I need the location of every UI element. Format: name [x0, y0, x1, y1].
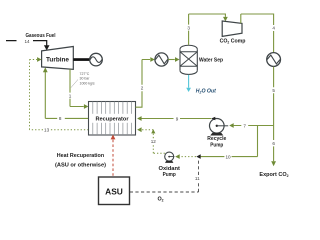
wire HX1 to water sep: [168, 59, 175, 61]
wire stream 10 branch: [201, 126, 258, 157]
compressor CO2 Comp: [222, 21, 242, 36]
pump discharge arrow: [211, 117, 215, 121]
wire fuel line 14: [6, 41, 47, 46]
oxidant pump: [165, 152, 175, 163]
svg-text:13: 13: [44, 128, 50, 133]
svg-text:6: 6: [272, 141, 275, 146]
svg-text:H2O Out: H2O Out: [196, 88, 216, 94]
svg-text:(ASU or otherwise): (ASU or otherwise): [55, 163, 106, 169]
wire stream 5-6 down right side: [273, 67, 275, 162]
annotation leader: [71, 80, 78, 88]
arrow into recycle pump: [229, 123, 234, 128]
shaft turbine-generator: [73, 58, 90, 61]
arrow into compressor: [223, 17, 228, 22]
svg-text:2: 2: [141, 86, 144, 91]
arrow H2O out: [186, 88, 191, 92]
recuperator: [89, 102, 136, 136]
svg-text:7: 7: [243, 123, 246, 128]
wire stream 12 oxidant pump to recuperator (dotted): [137, 130, 165, 154]
wire stream 1 turbine exhaust: [70, 69, 84, 106]
arrow into recuperator left top: [84, 104, 89, 109]
turbine T: [42, 47, 74, 70]
svg-text:1: 1: [69, 93, 72, 98]
wire stream 2 recuperator to cooler: [136, 60, 151, 108]
generator G: [90, 53, 103, 66]
arrow into turbine bottom: [43, 67, 48, 72]
svg-text:3: 3: [187, 25, 190, 30]
arrow red into recuperator bottom: [111, 135, 116, 140]
arrow at O2 junction: [196, 154, 200, 159]
svg-text:727°C: 727°C: [80, 72, 90, 76]
svg-text:Export CO2: Export CO2: [259, 172, 288, 178]
fuel arrow into turbine: [44, 45, 50, 50]
arrow into recuperator right: [137, 116, 142, 121]
svg-text:30 bar: 30 bar: [80, 77, 91, 81]
svg-text:Gaseous Fuel: Gaseous Fuel: [26, 33, 56, 39]
arrow up at corner: [151, 129, 155, 133]
wire stream 8 recuperator to turbine: [45, 72, 88, 119]
svg-text:14: 14: [24, 39, 30, 44]
svg-text:1000 kg/s: 1000 kg/s: [80, 81, 95, 85]
svg-text:Pump: Pump: [163, 172, 177, 178]
wire stream 4 comp to cooler HX2: [241, 14, 274, 53]
wire stream 3 water sep to CO2 comp: [189, 14, 226, 45]
svg-text:CO2 Comp: CO2 Comp: [220, 39, 246, 45]
svg-text:Water Sep: Water Sep: [199, 58, 224, 64]
svg-text:Pump: Pump: [210, 143, 223, 149]
svg-text:9: 9: [176, 116, 179, 121]
svg-text:Turbine: Turbine: [46, 57, 70, 64]
wire H2O out (cyan): [188, 75, 190, 88]
arrow export CO2: [271, 161, 276, 166]
svg-text:12: 12: [151, 139, 157, 144]
arrow into recuperator right (dashed stream): [137, 127, 142, 132]
arrow into water sep: [175, 57, 180, 62]
svg-text:ASU: ASU: [105, 187, 123, 197]
wire stream 7 to recycle pump: [234, 125, 274, 127]
wire heat to recuperator (red dashed): [112, 139, 114, 176]
arrow into oxidant pump: [175, 154, 180, 159]
wire oxidant mix to pump (dotted): [180, 156, 196, 158]
svg-text:Recuperator: Recuperator: [96, 117, 130, 123]
svg-text:4: 4: [272, 26, 275, 31]
svg-text:5: 5: [272, 88, 275, 93]
svg-text:Recycle: Recycle: [207, 136, 226, 142]
arrow into turbine left: [37, 57, 41, 62]
svg-text:8: 8: [59, 116, 62, 121]
heat exchanger HX2: [267, 53, 281, 67]
svg-text:10: 10: [225, 154, 231, 159]
svg-text:Oxidant: Oxidant: [159, 166, 181, 172]
water separator vessel: [180, 45, 197, 74]
heat exchanger HX1 (cooler): [155, 53, 168, 66]
wire stream 13 oxidant to turbine (dotted): [30, 60, 89, 130]
wire stream 9 pump to recuperator: [142, 118, 212, 120]
ASU box: [99, 177, 130, 205]
svg-text:Heat Recuperation: Heat Recuperation: [57, 153, 105, 159]
svg-text:11: 11: [195, 176, 200, 181]
recycle pump: [210, 119, 229, 136]
wire stream 11 O2 from ASU (dashed): [130, 159, 199, 192]
arrow into cooler HX1: [150, 57, 155, 62]
